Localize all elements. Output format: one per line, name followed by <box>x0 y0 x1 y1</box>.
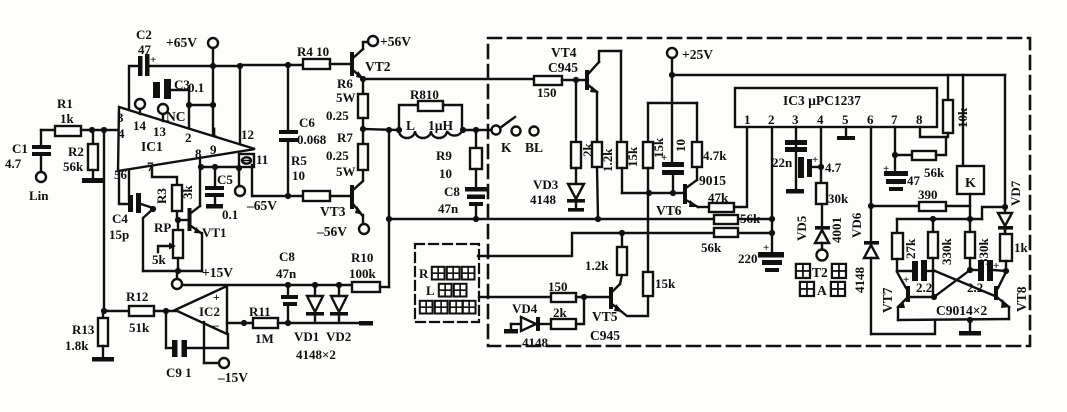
capacitor C6 <box>279 65 327 196</box>
ground multivibrator <box>959 320 981 336</box>
wire out node to switch <box>463 127 491 133</box>
capacitor 10 electrolytic <box>661 103 688 193</box>
svg-text:C945: C945 <box>548 60 578 75</box>
svg-text:56k: 56k <box>740 211 761 226</box>
svg-text:+15V: +15V <box>202 265 233 280</box>
svg-text:+: + <box>883 163 889 175</box>
diode VD7 <box>998 180 1023 232</box>
diode VD1 <box>294 282 324 344</box>
svg-text:R810: R810 <box>410 87 439 102</box>
svg-text:1: 1 <box>211 124 218 139</box>
svg-text:1k: 1k <box>1014 240 1029 255</box>
svg-text:3k: 3k <box>180 185 195 200</box>
transistor VT8 <box>994 272 1029 319</box>
potentiometer RP <box>152 220 183 271</box>
transistor VT3 <box>320 181 363 224</box>
svg-text:4.7: 4.7 <box>5 156 22 171</box>
wire +15V circle to clamp rail <box>182 284 352 286</box>
multivibrator top rail <box>897 216 982 222</box>
svg-text:–56V: –56V <box>316 224 347 239</box>
svg-text:9: 9 <box>210 142 217 157</box>
transistor VT7 <box>880 272 910 320</box>
svg-text:47k: 47k <box>708 190 729 205</box>
diode VD4 <box>504 301 551 350</box>
diode VD2 <box>296 282 351 362</box>
terminal -15V <box>204 322 248 385</box>
svg-text:L: L <box>406 118 415 133</box>
svg-text:C4: C4 <box>112 211 128 226</box>
svg-text:+65V: +65V <box>166 35 197 50</box>
svg-text:2: 2 <box>185 130 192 145</box>
pin 1 label <box>211 124 218 139</box>
resistor R10 <box>349 250 389 292</box>
svg-text:+: + <box>993 260 999 272</box>
VD6 return wire <box>871 320 935 334</box>
wire C2 left down to C4 <box>129 66 138 200</box>
svg-text:C8: C8 <box>444 184 460 199</box>
pin 5 stub <box>837 127 855 140</box>
resistor 56k upper sense <box>714 211 775 226</box>
svg-text:11: 11 <box>256 152 268 167</box>
svg-text:27k: 27k <box>903 238 918 259</box>
svg-text:VT1: VT1 <box>202 225 227 240</box>
pin 3 <box>117 110 124 125</box>
pin 4 label <box>118 126 125 141</box>
+25V rail to right <box>672 74 1005 76</box>
sense wire L channel <box>389 216 772 222</box>
svg-text:R11: R11 <box>249 304 271 319</box>
svg-text:22n: 22n <box>772 155 793 170</box>
svg-text:NC: NC <box>166 109 186 124</box>
transistor VT6 9015 <box>656 173 726 218</box>
pin 3 stem with 22n <box>772 127 807 189</box>
resistor 2k (VD4) <box>551 297 584 329</box>
resistor 4.7k <box>692 103 727 180</box>
wire input node <box>41 129 55 131</box>
svg-text:C5: C5 <box>217 172 233 187</box>
svg-text:0.25: 0.25 <box>326 108 349 123</box>
svg-text:2k: 2k <box>553 305 568 320</box>
capacitor 2.2 left <box>897 260 935 295</box>
svg-text:VD2: VD2 <box>326 329 351 344</box>
resistor 150 (VT4 base) <box>534 76 585 100</box>
svg-text:+25V: +25V <box>682 47 713 62</box>
resistor R12 <box>101 289 176 335</box>
capacitor C1 <box>5 130 51 172</box>
emitter rail <box>898 303 1009 323</box>
svg-text:47n: 47n <box>276 266 297 281</box>
pin 14 terminal <box>133 99 147 133</box>
svg-text:IC1: IC1 <box>141 139 163 154</box>
svg-text:0.1: 0.1 <box>222 207 238 222</box>
IC3 uPC1237 <box>735 88 937 127</box>
svg-text:5W: 5W <box>336 90 356 105</box>
wire pin11 to -65V terminal <box>236 165 242 186</box>
svg-text:47n: 47n <box>438 201 459 216</box>
wire VT6 base rail <box>622 190 683 196</box>
svg-text:R7: R7 <box>337 130 353 145</box>
svg-text:R4 10: R4 10 <box>297 44 329 59</box>
svg-text:30k: 30k <box>828 191 849 206</box>
resistor R11 <box>249 304 360 346</box>
pin 8 stem <box>920 127 946 137</box>
svg-text:R2: R2 <box>68 144 84 159</box>
resistor 390 <box>871 187 970 211</box>
terminal -56V <box>316 224 369 239</box>
resistor 150 (VT5 base) <box>479 279 611 302</box>
svg-text:4.7: 4.7 <box>825 160 842 175</box>
svg-text:8: 8 <box>916 112 923 127</box>
svg-text:4: 4 <box>817 112 824 127</box>
IC3 pin labels <box>744 112 923 127</box>
svg-text:0.25: 0.25 <box>326 148 349 163</box>
svg-text:R12: R12 <box>126 289 148 304</box>
diode VD6 <box>849 212 879 334</box>
svg-text:0.1: 0.1 <box>188 80 204 95</box>
svg-text:56k: 56k <box>701 240 722 255</box>
svg-text:51k: 51k <box>129 320 150 335</box>
svg-text:330k: 330k <box>939 238 954 266</box>
transistor VT4 <box>548 45 621 142</box>
svg-text:R: R <box>419 266 429 281</box>
svg-text:10: 10 <box>673 139 688 152</box>
wire pin5/6 down to C4 <box>119 171 128 204</box>
svg-text:IC2: IC2 <box>199 304 220 319</box>
svg-text:C2: C2 <box>136 27 152 42</box>
resistor 56k lower sense <box>701 228 775 255</box>
svg-text:12: 12 <box>241 127 254 142</box>
op-amp IC2 <box>175 286 227 334</box>
svg-text:C9 1: C9 1 <box>166 365 192 380</box>
svg-text:390: 390 <box>918 187 938 202</box>
wire from R1 node down to R12 <box>103 130 105 311</box>
svg-text:VD7: VD7 <box>1008 180 1023 206</box>
transistor VT2 <box>350 42 391 79</box>
sense wire R channel <box>478 230 772 256</box>
resistor 15k third <box>643 193 676 296</box>
svg-text:VT6: VT6 <box>656 203 682 218</box>
svg-text:7: 7 <box>891 112 898 127</box>
resistor 330k right <box>965 219 991 270</box>
capacitor C5 <box>205 167 238 222</box>
node C4 right <box>141 204 156 212</box>
svg-text:4148: 4148 <box>852 267 867 294</box>
resistor R4 <box>297 44 350 69</box>
wire pin8/9 rail to pin11 box <box>198 158 239 170</box>
resistor 27k <box>892 219 918 271</box>
capacitor C2 <box>136 27 156 76</box>
svg-text:56k: 56k <box>63 159 84 174</box>
svg-text:VT4: VT4 <box>551 45 577 60</box>
svg-text:A: A <box>817 283 827 298</box>
ground below C5 <box>206 204 223 209</box>
resistor R7 <box>326 129 368 180</box>
svg-text:15p: 15p <box>109 227 129 242</box>
svg-text:9015: 9015 <box>699 173 726 188</box>
svg-text:VD4: VD4 <box>512 301 538 316</box>
resistor 15k first <box>617 142 640 193</box>
svg-text:6: 6 <box>867 112 874 127</box>
capacitor C9 feedback <box>166 311 228 380</box>
node VT2 emitter <box>360 76 366 94</box>
svg-text:14: 14 <box>133 118 147 133</box>
resistor R2 <box>63 130 98 178</box>
svg-text:VD6: VD6 <box>849 212 864 238</box>
svg-text:4148: 4148 <box>522 335 549 350</box>
svg-text:+56V: +56V <box>380 34 411 49</box>
svg-text:–15V: –15V <box>217 370 248 385</box>
svg-text:3: 3 <box>792 112 799 127</box>
svg-text:0.068: 0.068 <box>297 132 327 147</box>
svg-text:4001: 4001 <box>829 217 844 243</box>
capacitor 220 electrolytic <box>738 127 784 272</box>
svg-text:VT8: VT8 <box>1014 286 1029 312</box>
op-amp IC1 <box>118 107 255 171</box>
svg-text:R9: R9 <box>436 148 452 163</box>
svg-text:K: K <box>501 140 512 155</box>
node R1/R2 junction <box>89 127 107 133</box>
svg-text:VD3: VD3 <box>533 177 559 192</box>
svg-text:1.2k: 1.2k <box>600 148 615 172</box>
terminal +15V <box>172 265 233 289</box>
svg-text:C1: C1 <box>12 141 28 156</box>
terminal +25V <box>667 47 713 103</box>
svg-text:+: + <box>661 152 667 164</box>
pin 9 label <box>210 142 217 157</box>
resistor 1.2k (VT4 emitter) <box>592 142 615 219</box>
svg-text:R1: R1 <box>57 96 73 111</box>
svg-text:+: + <box>763 242 769 254</box>
svg-text:150: 150 <box>537 85 557 100</box>
svg-text:13: 13 <box>153 124 167 139</box>
svg-text:–65V: –65V <box>246 198 277 213</box>
svg-text:1k: 1k <box>60 111 75 126</box>
transistor VT5 <box>590 284 648 343</box>
svg-text:47: 47 <box>907 173 921 188</box>
svg-text:2.2: 2.2 <box>916 280 932 295</box>
ground right of VD2 <box>359 321 373 326</box>
R channel note dashed box <box>415 244 479 322</box>
capacitor C8 47n (left) <box>276 249 298 326</box>
main protection dashed box <box>488 38 1030 346</box>
ground below R2 <box>82 178 105 183</box>
cross coupling wires <box>910 270 995 300</box>
svg-text:15k: 15k <box>625 146 640 167</box>
pin 7 label <box>147 159 154 174</box>
inductor L coil <box>399 118 462 138</box>
inductor L with resistor R810 loop <box>396 87 466 133</box>
svg-text:R6: R6 <box>337 76 353 91</box>
+15V rail <box>143 268 202 274</box>
svg-text:4148×2: 4148×2 <box>296 347 336 362</box>
resistor 56k (pin7 to 10k) <box>895 137 946 180</box>
terminal +65V <box>166 35 218 136</box>
svg-text:BL: BL <box>525 140 543 155</box>
svg-text:2: 2 <box>768 112 775 127</box>
terminal T2 point A <box>817 250 828 261</box>
svg-text:L: L <box>426 283 435 298</box>
pin 6 stem <box>868 127 874 241</box>
resistor R5 <box>253 153 350 201</box>
svg-text:K: K <box>965 176 976 191</box>
svg-text:56: 56 <box>114 167 128 182</box>
ground below R13 <box>92 357 114 362</box>
svg-text:C945: C945 <box>590 328 620 343</box>
node speaker out <box>360 126 399 132</box>
switch K BL <box>492 117 544 155</box>
svg-text:VT5: VT5 <box>592 309 618 324</box>
note connect T2 secondary A <box>796 264 846 298</box>
wire IC2 output <box>227 320 253 326</box>
R channel note text <box>419 266 476 314</box>
pin 8 label <box>195 146 202 161</box>
capacitor C3 <box>153 77 204 99</box>
terminal +56V <box>368 34 411 49</box>
ground below 22n <box>786 189 804 194</box>
capacitor 2.2 right <box>967 260 1009 295</box>
svg-text:VT3: VT3 <box>320 204 346 219</box>
svg-text:R10: R10 <box>351 250 373 265</box>
svg-text:5W: 5W <box>336 164 356 179</box>
wire VT2 emitter to protection <box>363 78 534 80</box>
svg-text:R3: R3 <box>154 188 169 204</box>
svg-text:1.8k: 1.8k <box>65 338 89 353</box>
wire C2 right to +65V rail <box>149 65 240 67</box>
svg-text:1µH: 1µH <box>428 118 454 133</box>
wire pin7 to R3 <box>152 168 177 185</box>
svg-text:10: 10 <box>439 166 452 181</box>
svg-text:IC3 µPC1237: IC3 µPC1237 <box>783 93 861 108</box>
pin 7 stem with 47 <box>883 127 921 191</box>
wire +25V corner down <box>1002 75 1008 213</box>
svg-text:VD5: VD5 <box>794 215 809 241</box>
wire 390 rail to VD7 node <box>982 207 1005 219</box>
svg-text:+: + <box>150 54 156 66</box>
wire VT4 collector down <box>620 51 622 142</box>
wire pin11 box to R5 <box>252 165 253 196</box>
svg-text:–: – <box>212 318 220 332</box>
resistor R6 <box>326 76 368 129</box>
capacitor C8 47n (mid) <box>438 184 487 219</box>
svg-text:T2: T2 <box>812 265 828 280</box>
resistor 2k <box>571 80 595 184</box>
svg-text:+: + <box>213 290 220 304</box>
pin 5 6 labels <box>114 167 128 182</box>
node R3/RP/VT1 base <box>175 217 188 223</box>
svg-text:100k: 100k <box>349 266 377 281</box>
svg-text:220: 220 <box>738 251 758 266</box>
+25V feed split <box>648 102 697 104</box>
svg-text:+: + <box>812 154 818 166</box>
svg-text:5k: 5k <box>152 252 167 267</box>
svg-text:1: 1 <box>744 112 751 127</box>
svg-text:15k: 15k <box>655 276 676 291</box>
svg-text:1M: 1M <box>255 331 274 346</box>
resistor 47k (VT6 emitter) <box>698 127 747 212</box>
wire +65V rail to R4 <box>240 62 303 68</box>
svg-text:VT2: VT2 <box>365 59 391 74</box>
svg-text:C9014×2: C9014×2 <box>936 303 987 318</box>
svg-text:5: 5 <box>842 112 849 127</box>
svg-text:R13: R13 <box>72 322 95 337</box>
svg-text:4: 4 <box>118 126 125 141</box>
capacitor 4.7 electrolytic <box>798 154 842 178</box>
resistor 15k second <box>643 103 666 193</box>
svg-text:C8: C8 <box>279 249 295 264</box>
transistor VT1 <box>188 167 227 271</box>
capacitor C4 <box>109 193 141 242</box>
svg-text:56k: 56k <box>924 165 945 180</box>
pin 12 wire <box>237 63 254 144</box>
resistor R3 <box>154 185 195 221</box>
diode VD3 <box>530 177 585 212</box>
relay K <box>957 75 984 219</box>
svg-text:4148: 4148 <box>530 192 557 207</box>
svg-text:4.7k: 4.7k <box>703 148 727 163</box>
svg-text:RP: RP <box>154 220 171 235</box>
pin 13 NC terminal <box>153 104 186 139</box>
terminal -65V <box>235 186 277 213</box>
svg-text:10: 10 <box>292 168 305 183</box>
svg-text:150: 150 <box>548 279 568 294</box>
svg-text:VD1: VD1 <box>294 329 319 344</box>
terminal Lin <box>29 172 49 203</box>
diode VD5 <box>794 215 844 249</box>
pin 2 label <box>185 130 192 145</box>
pin 11 output box <box>239 152 268 167</box>
resistor 1k <box>1000 229 1029 271</box>
svg-text:R5: R5 <box>291 153 307 168</box>
resistor 1.2k (VT5 collector) <box>585 233 627 284</box>
wire R10 up to speaker line <box>386 127 392 287</box>
svg-text:Lin: Lin <box>29 188 49 203</box>
svg-text:C6: C6 <box>299 115 315 130</box>
resistor 10k <box>943 75 970 137</box>
resistor R13 <box>65 311 108 357</box>
wire C3 to pin2 and +65V line <box>171 90 213 133</box>
svg-text:3: 3 <box>117 110 124 125</box>
resistor R9 <box>436 130 482 187</box>
resistor R1 <box>55 96 119 136</box>
resistor 330k left <box>928 219 954 297</box>
pin 4 stem with 30k <box>816 127 849 226</box>
wire C4 node down to +15V rail <box>143 209 153 271</box>
svg-text:VT7: VT7 <box>880 287 895 313</box>
svg-text:1.2k: 1.2k <box>585 258 609 273</box>
